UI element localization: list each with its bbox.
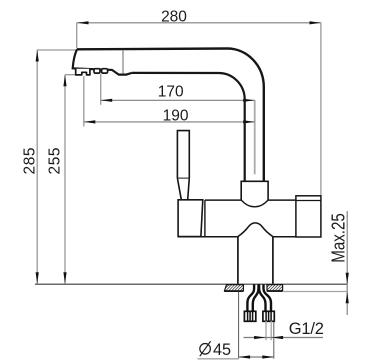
- dim 280 dimension line: [77, 22, 321, 24]
- max25 lower reference line: [283, 291, 348, 293]
- mounting plate left bottom edge: [224, 290, 243, 292]
- dim d45 arrow right: [262, 355, 274, 358]
- dim d45 dimension line: [239, 356, 274, 358]
- dim 285 dimension line: [36, 50, 38, 284]
- column left edge: [237, 237, 239, 284]
- svg-text:285: 285: [21, 147, 38, 175]
- dim d45 extension right: [273, 322, 275, 359]
- mounting plate left: [225, 285, 244, 291]
- aerator notched block: [76, 69, 90, 75]
- dim 190 arrow right: [243, 120, 255, 123]
- deck line: [35, 283, 347, 285]
- svg-text:280: 280: [161, 8, 187, 25]
- dim 285 arrow top: [36, 50, 39, 62]
- handle lever stick: [177, 131, 189, 179]
- dim g12 dimension line: [244, 337, 324, 339]
- column right edge: [272, 237, 274, 284]
- body end cap inner line: [296, 200, 321, 202]
- pipe-body connector block: [241, 181, 268, 200]
- svg-text:45: 45: [213, 341, 231, 359]
- dim 280 arrow right: [310, 21, 322, 24]
- dim 190 arrow left: [84, 120, 96, 123]
- mounting plate right: [267, 285, 283, 291]
- spout head/pipe junction line: [122, 50, 124, 74]
- hose left outer: [247, 284, 254, 311]
- handle lever divider: [177, 177, 189, 179]
- dim 285 top extension: [37, 49, 77, 51]
- hose left end fitting: [244, 311, 255, 321]
- body bottom line right segment: [273, 236, 296, 238]
- dim g12 extension right: [270, 321, 272, 340]
- dim d45 arrow left: [239, 355, 251, 358]
- svg-text:190: 190: [163, 108, 189, 125]
- dim 190 dimension line: [84, 121, 255, 123]
- dim 255 arrow top: [63, 75, 66, 87]
- hose left inner: [253, 284, 259, 311]
- dim max25 arrow down: [346, 273, 349, 285]
- spout top edge and bend outer: [77, 49, 264, 182]
- body bottom line left segment: [178, 236, 238, 238]
- dim g12 extension left: [265, 321, 267, 340]
- dim 170 extension line left: [100, 74, 102, 105]
- handle base: [178, 200, 203, 237]
- dim d45 extension left: [238, 292, 240, 359]
- column transition bulge: [238, 223, 273, 237]
- mounting plate right bottom edge: [267, 290, 283, 292]
- dim max25 arrow up: [346, 292, 349, 304]
- dim 255 top extension: [65, 74, 76, 76]
- dim g12 arrow right: [272, 336, 284, 339]
- dim 170 dimension line: [101, 99, 255, 101]
- svg-text:Max.25: Max.25: [328, 213, 348, 263]
- svg-text:255: 255: [46, 147, 63, 175]
- aerator tab 1: [94, 69, 100, 73]
- hose right inner: [259, 284, 265, 311]
- dim 280 extension line left: [76, 23, 78, 49]
- body left edge: [204, 200, 206, 237]
- dim max25 line upper: [346, 211, 348, 315]
- body end cap: [296, 196, 321, 237]
- dim g12 arrow left: [254, 336, 266, 339]
- handle lever neck: [177, 178, 189, 200]
- hose right outer: [264, 284, 272, 311]
- spout bottom edge and bend inner: [132, 73, 245, 181]
- spout head outline: [73, 49, 132, 74]
- svg-text:G1/2: G1/2: [289, 320, 324, 338]
- svg-text:170: 170: [158, 83, 184, 100]
- dim d45 text underline: [198, 358, 239, 360]
- dim 280 arrow left: [77, 21, 89, 24]
- body top line right segment: [268, 199, 296, 201]
- dim 170/190 pipe centerline extension: [254, 100, 256, 174]
- dim 255 arrow bottom: [63, 272, 66, 284]
- aerator tab 2: [102, 69, 108, 73]
- dim 170 arrow left: [101, 99, 113, 102]
- dim d45 diameter symbol: [200, 341, 211, 356]
- hose right end fitting: [263, 311, 274, 321]
- dim 285 arrow bottom: [36, 272, 39, 284]
- connector bottom bulge: [241, 200, 268, 207]
- dim 280 extension line right: [320, 23, 322, 196]
- body top line left segment: [205, 199, 241, 201]
- dim 170 arrow right: [243, 99, 255, 102]
- dim 190 extension line left: [83, 76, 85, 126]
- dim 255 dimension line: [64, 75, 66, 284]
